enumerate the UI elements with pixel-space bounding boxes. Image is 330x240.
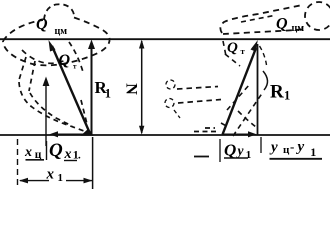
tick below ground left origin (dashed): [17, 139, 19, 187]
left figure knee and shin (dashed): [19, 82, 84, 131]
left figure arm dashes: [69, 42, 87, 124]
left figure trunk outline (dashed): [3, 18, 110, 66]
svg-text:цм: цм: [292, 23, 305, 34]
force Qy1 arrow (rightwards along ground): [223, 133, 251, 135]
tick below ground left of Qy1: [219, 139, 221, 162]
vector R1 left (vertical): [91, 45, 93, 135]
underline x1 part: [64, 160, 77, 162]
dash before Qy1: [194, 156, 209, 158]
right figure arm along trunk (dashed): [241, 16, 274, 23]
N height dimension line: [141, 41, 143, 133]
svg-text:Q: Q: [36, 16, 48, 33]
right leg dash crossing vertical: [233, 92, 263, 136]
svg-text:у: у: [269, 140, 278, 156]
svg-text:Q: Q: [59, 52, 71, 69]
force Qx1 arrow (leftwards along ground): [54, 133, 89, 135]
left figure pelvis arc (dashed): [22, 50, 66, 63]
calf curve right: [263, 71, 268, 90]
right figure head (dashed): [305, 2, 330, 30]
svg-text:.: .: [78, 150, 81, 162]
svg-text:R: R: [270, 82, 284, 103]
svg-text:-: -: [290, 139, 294, 154]
svg-text:цм: цм: [55, 26, 68, 37]
svg-text:y: y: [236, 143, 245, 158]
svg-text:Q: Q: [49, 140, 63, 161]
underline Qy: [224, 157, 248, 159]
junction blob at left support: [81, 129, 94, 136]
dash near ground right: [221, 111, 256, 127]
right thigh dash: [225, 54, 240, 66]
left figure thigh dashes: [19, 57, 35, 91]
right foot dashes: [194, 128, 217, 132]
svg-text:ц: ц: [283, 144, 290, 156]
svg-text:1: 1: [310, 145, 316, 159]
right shin dash: [227, 84, 250, 110]
svg-text:Q: Q: [224, 141, 236, 160]
vector to CM right (thick diagonal): [223, 48, 257, 135]
CM level line: [0, 38, 330, 40]
vector Q_t left (diagonal to CM): [52, 46, 90, 134]
gravity line x_c (vertical through CM): [45, 82, 47, 146]
separator tick: [46, 141, 48, 160]
svg-text:1: 1: [246, 149, 252, 161]
svg-text:1: 1: [284, 89, 290, 103]
svg-text:N: N: [123, 83, 140, 95]
right figure trunk (dashed): [220, 6, 302, 35]
svg-text:1: 1: [105, 87, 111, 101]
right hip dash: [223, 41, 226, 56]
svg-text:x: x: [46, 167, 55, 183]
svg-text:1: 1: [58, 172, 64, 184]
underline yc-y1: [270, 158, 323, 160]
line R1 right (vertical): [257, 44, 259, 135]
right hand curls: [166, 80, 175, 89]
svg-text:у: у: [296, 139, 305, 155]
svg-text:x: x: [64, 147, 72, 162]
left figure head (dashed): [44, 4, 74, 20]
svg-text:т: т: [73, 63, 77, 71]
right arms (dashed horizontals): [177, 87, 221, 104]
tick below ground at support x1: [92, 137, 94, 189]
right thigh dash upper (right of vertical): [260, 46, 267, 65]
tick below ground right of Qy1: [260, 137, 262, 153]
svg-text:x: x: [24, 145, 32, 160]
underline x_c: [26, 159, 45, 161]
dimension x1 line with arrows: [20, 180, 49, 182]
ground line: [0, 134, 330, 136]
svg-text:Q: Q: [276, 16, 288, 33]
svg-text:Q: Q: [227, 40, 238, 56]
